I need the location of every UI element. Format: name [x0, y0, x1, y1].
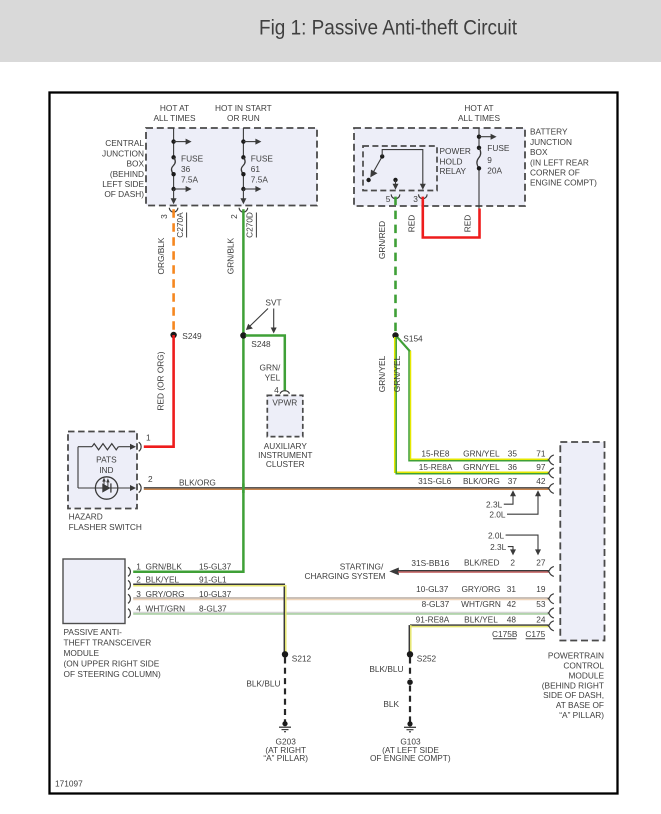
fuse 9 feed wire	[478, 128, 480, 148]
svg-text:JUNCTION: JUNCTION	[530, 137, 572, 147]
svg-text:POWER: POWER	[440, 146, 471, 156]
relay pin 3 connector	[419, 194, 428, 198]
svg-text:8-GL37: 8-GL37	[422, 599, 450, 609]
title bar	[0, 0, 661, 62]
svg-text:171097: 171097	[55, 779, 83, 789]
svg-text:GRN/YEL: GRN/YEL	[377, 355, 387, 392]
svg-text:OF DASH): OF DASH)	[104, 189, 144, 199]
svg-text:MODULE: MODULE	[569, 670, 605, 680]
svg-text:CORNER OF: CORNER OF	[530, 168, 580, 178]
svg-text:GRN/YEL: GRN/YEL	[392, 355, 402, 392]
svg-text:1: 1	[136, 561, 141, 571]
svg-text:OR RUN: OR RUN	[227, 113, 260, 123]
node on fuse 36 feed with branch arrow	[171, 139, 175, 143]
fuse 36 exit wire arrow and connector	[173, 189, 175, 201]
SVT arrow to splice	[250, 309, 269, 327]
fuse 9 element	[477, 146, 481, 150]
fuse 61 lower branch arrow	[241, 187, 245, 191]
svg-text:BATTERY: BATTERY	[530, 127, 568, 137]
splice S248	[240, 332, 246, 338]
svg-text:71: 71	[536, 449, 546, 459]
svg-text:“A” PILLAR): “A” PILLAR)	[559, 710, 604, 720]
svg-text:RELAY: RELAY	[440, 166, 467, 176]
svg-text:36: 36	[181, 164, 191, 174]
junction node on ground wire	[407, 679, 413, 685]
wire BLK/RED to PCM pin 2	[398, 570, 549, 572]
svg-text:CONTROL: CONTROL	[563, 660, 604, 670]
svg-text:S248: S248	[251, 339, 271, 349]
wire GRN/YEL 15-RE8A from S154 to PCM pin 35	[395, 337, 549, 472]
svg-text:JUNCTION: JUNCTION	[102, 148, 144, 158]
PCM pin 37 connector	[548, 483, 553, 493]
svg-text:OF STEERING COLUMN): OF STEERING COLUMN)	[64, 669, 161, 679]
resistor element	[92, 444, 118, 450]
wire BLK/YEL from S252 to PCM	[410, 624, 549, 626]
splice S252	[407, 651, 413, 657]
svg-text:C175: C175	[525, 629, 545, 639]
wire BLK/YEL from transceiver pin 2 to S212	[133, 584, 284, 651]
svg-text:GRY/ORG: GRY/ORG	[146, 589, 185, 599]
svg-text:BLK/RED: BLK/RED	[464, 557, 500, 567]
wire BLK to G103	[409, 686, 411, 722]
relay pin 5 connector	[391, 194, 400, 198]
svg-text:61: 61	[251, 164, 261, 174]
svg-text:C270D: C270D	[245, 212, 255, 238]
svg-text:10-GL37: 10-GL37	[416, 584, 449, 594]
svg-text:POWERTRAIN: POWERTRAIN	[548, 650, 604, 660]
svg-text:GRY/ORG: GRY/ORG	[461, 584, 500, 594]
node on fuse 9 feed with branch arrow	[477, 135, 481, 139]
battery junction box	[354, 128, 525, 206]
svg-text:HOT AT: HOT AT	[160, 103, 189, 113]
svg-text:3: 3	[413, 194, 418, 204]
svg-text:AT BASE OF: AT BASE OF	[556, 700, 604, 710]
svg-text:FLASHER SWITCH: FLASHER SWITCH	[69, 522, 142, 532]
svg-text:ENGINE COMPT): ENGINE COMPT)	[530, 178, 597, 188]
transceiver pin 4 connector	[128, 609, 130, 618]
svg-text:24: 24	[536, 614, 546, 624]
svg-text:15-RE8A: 15-RE8A	[419, 462, 453, 472]
svg-text:31S-BB16: 31S-BB16	[411, 558, 449, 568]
powertrain control module box	[560, 442, 604, 641]
auxiliary instrument cluster VPWR box	[267, 395, 303, 436]
relay common wire to pin 3	[382, 150, 423, 185]
svg-text:3: 3	[136, 589, 141, 599]
svg-text:(BEHIND: (BEHIND	[110, 169, 144, 179]
ground G103	[407, 721, 412, 726]
svg-text:PASSIVE ANTI-: PASSIVE ANTI-	[64, 627, 123, 637]
instrument cluster pin 4 connector	[280, 391, 289, 394]
svg-text:37: 37	[508, 476, 518, 486]
svg-text:HOT AT: HOT AT	[464, 103, 493, 113]
svg-text:SIDE OF DASH,: SIDE OF DASH,	[543, 690, 604, 700]
fuse 36 feed wire	[173, 128, 175, 157]
svg-text:IND: IND	[99, 465, 113, 475]
PCM pin 35 connector	[548, 455, 553, 465]
wire BLK/BLU to G203	[284, 658, 286, 722]
hazard pin 1 arrow and connector	[130, 444, 136, 450]
svg-text:91-GL1: 91-GL1	[199, 575, 227, 585]
svg-text:RED: RED	[462, 215, 472, 233]
svg-text:ORG/BLK: ORG/BLK	[156, 237, 166, 274]
wire GRN/YEL 15-RE8 from S154 to PCM pin 36	[397, 337, 410, 351]
svg-text:20A: 20A	[487, 166, 502, 176]
svg-text:7.5A: 7.5A	[251, 174, 269, 184]
svg-text:GRN/: GRN/	[260, 362, 281, 372]
fuse 61 element	[241, 155, 245, 159]
wire RED from relay pin 3 to fuse 9	[423, 197, 480, 238]
svg-text:97: 97	[536, 462, 546, 472]
svg-text:2: 2	[510, 557, 515, 567]
svg-text:(BEHIND RIGHT: (BEHIND RIGHT	[542, 680, 604, 690]
power hold relay K1 box	[363, 146, 437, 191]
hazard flasher switch box	[68, 432, 137, 509]
ground G203	[282, 721, 287, 726]
svg-text:GRN/YEL: GRN/YEL	[463, 449, 500, 459]
svg-text:RED (OR ORG): RED (OR ORG)	[156, 351, 166, 410]
fuse 61 exit wire arrow and connector	[242, 189, 244, 201]
svg-text:48: 48	[507, 614, 517, 624]
splice S249	[170, 332, 176, 338]
svg-text:53: 53	[536, 599, 546, 609]
relay switch blade	[373, 156, 382, 172]
fuse 61 feed wire	[242, 128, 244, 157]
svg-text:GRN/BLK: GRN/BLK	[146, 561, 183, 571]
svg-text:3: 3	[159, 214, 169, 219]
svg-text:CHARGING SYSTEM: CHARGING SYSTEM	[304, 571, 385, 581]
svg-text:31: 31	[507, 584, 517, 594]
svg-text:42: 42	[536, 476, 546, 486]
PCM pin 31 connector	[548, 594, 553, 604]
PCM pin 48 connector	[548, 621, 553, 631]
svg-text:YEL: YEL	[265, 372, 281, 382]
svg-text:2: 2	[136, 575, 141, 585]
svg-text:15-RE8: 15-RE8	[421, 449, 450, 459]
fuse 36 lower branch arrow	[171, 187, 175, 191]
wire WHT/GRN from transceiver pin 4 to PCM	[133, 611, 549, 613]
svg-text:4: 4	[274, 385, 279, 395]
PATS IND indicator LED	[95, 477, 117, 499]
wire GRN/YEL from S248 to instrument cluster	[246, 336, 285, 392]
svg-text:S252: S252	[417, 653, 437, 663]
svg-text:2.3L: 2.3L	[486, 499, 503, 509]
powertrain control module label	[542, 650, 605, 720]
svg-text:WHT/GRN: WHT/GRN	[461, 599, 501, 609]
svg-text:2.0L: 2.0L	[488, 531, 505, 541]
svg-text:10-GL37: 10-GL37	[199, 589, 232, 599]
svg-text:Fig 1: Passive Anti-theft Circ: Fig 1: Passive Anti-theft Circuit	[259, 17, 517, 40]
svg-text:CLUSTER: CLUSTER	[266, 459, 305, 469]
SVT arrow to wire	[273, 309, 275, 329]
arrow to starting/charging system	[389, 568, 399, 576]
svg-text:S212: S212	[292, 653, 312, 663]
hazard pin 2 arrow and connector	[130, 485, 136, 491]
svg-text:THEFT TRANSCEIVER: THEFT TRANSCEIVER	[64, 638, 152, 648]
svg-text:FUSE: FUSE	[251, 154, 274, 164]
svg-text:RED: RED	[407, 215, 417, 233]
diagram border frame	[50, 93, 618, 794]
svg-text:27: 27	[536, 557, 546, 567]
svg-text:BLK/ORG: BLK/ORG	[463, 476, 500, 486]
svg-text:C270A: C270A	[175, 212, 185, 238]
svg-text:GRN/YEL: GRN/YEL	[463, 462, 500, 472]
svg-text:LEFT SIDE: LEFT SIDE	[102, 179, 144, 189]
svg-text:9: 9	[487, 155, 492, 165]
hazard lower internal wire	[78, 487, 131, 489]
svg-text:2.3L: 2.3L	[490, 542, 507, 552]
PCM pin 2 connector	[548, 566, 553, 576]
svg-text:1: 1	[146, 432, 151, 442]
svg-text:BLK: BLK	[383, 699, 399, 709]
svg-text:HOT IN START: HOT IN START	[215, 103, 272, 113]
wire GRN/RED from relay pin 5	[394, 197, 397, 332]
svg-text:“A” PILLAR): “A” PILLAR)	[263, 753, 308, 763]
svg-text:2.0L: 2.0L	[489, 510, 506, 520]
svg-text:2: 2	[148, 474, 153, 484]
wire GRY/ORG from transceiver pin 3 to PCM	[133, 597, 549, 599]
wire BLK/ORG from hazard flasher pin 2 to PCM	[144, 487, 549, 489]
node on fuse 61 feed with branch arrow	[241, 139, 245, 143]
svg-text:HOLD: HOLD	[440, 156, 463, 166]
svg-text:BLK/YEL: BLK/YEL	[464, 614, 498, 624]
svg-text:ALL TIMES: ALL TIMES	[154, 113, 196, 123]
central junction box label	[102, 138, 144, 199]
splice S154	[392, 332, 398, 338]
svg-text:S154: S154	[403, 333, 423, 343]
svg-text:FUSE: FUSE	[181, 154, 204, 164]
svg-text:(IN LEFT REAR: (IN LEFT REAR	[530, 157, 589, 167]
svg-text:WHT/GRN: WHT/GRN	[146, 603, 186, 613]
svg-text:HAZARD: HAZARD	[69, 511, 103, 521]
svg-text:BLK/YEL: BLK/YEL	[146, 575, 180, 585]
svg-text:36: 36	[508, 462, 518, 472]
svg-text:FUSE: FUSE	[487, 143, 510, 153]
wire GRN/BLK from fuse 61 to transceiver pin 1	[133, 209, 243, 572]
svg-text:15-GL37: 15-GL37	[199, 561, 232, 571]
transceiver pin 1 connector	[128, 567, 130, 576]
svg-text:BOX: BOX	[126, 159, 144, 169]
svg-text:BOX: BOX	[530, 147, 548, 157]
svg-text:PATS: PATS	[96, 455, 117, 465]
PCM pin 42 connector	[548, 608, 553, 618]
svg-text:(ON UPPER RIGHT SIDE: (ON UPPER RIGHT SIDE	[64, 658, 160, 668]
PCM pin 36 connector	[548, 468, 553, 478]
svg-text:35: 35	[508, 449, 518, 459]
svg-text:31S-GL6: 31S-GL6	[418, 476, 452, 486]
svg-text:SVT: SVT	[265, 297, 281, 307]
svg-text:S249: S249	[182, 331, 202, 341]
wire ORG/BLK from fuse 36	[172, 209, 175, 331]
svg-text:BLK/BLU: BLK/BLU	[369, 664, 403, 674]
svg-text:MODULE: MODULE	[64, 648, 100, 658]
svg-text:8-GL37: 8-GL37	[199, 603, 227, 613]
svg-text:5: 5	[386, 194, 391, 204]
svg-text:ALL TIMES: ALL TIMES	[458, 113, 500, 123]
hazard flasher internal wire	[77, 447, 79, 488]
svg-text:42: 42	[507, 599, 517, 609]
svg-text:BLK/ORG: BLK/ORG	[179, 477, 216, 487]
splice S212	[282, 651, 288, 657]
relay contact NC	[366, 178, 370, 182]
wire BLK/BLU segment to junction	[409, 658, 411, 679]
svg-text:VPWR: VPWR	[272, 398, 297, 408]
passive anti-theft transceiver module box	[63, 559, 125, 624]
svg-text:C175B: C175B	[492, 629, 518, 639]
fuse 36 element	[171, 155, 175, 159]
svg-text:4: 4	[136, 603, 141, 613]
svg-text:91-RE8A: 91-RE8A	[416, 614, 450, 624]
transceiver pin 3 connector	[128, 594, 130, 603]
svg-text:19: 19	[536, 584, 546, 594]
svg-text:OF ENGINE COMPT): OF ENGINE COMPT)	[370, 753, 451, 763]
wire RED (OR ORG) to hazard flasher pin 1	[144, 335, 174, 447]
svg-text:BLK/BLU: BLK/BLU	[246, 679, 280, 689]
wire GRN/BLK crossing over BLK/ORG	[242, 484, 245, 494]
relay pin 5 contact	[393, 178, 397, 182]
svg-text:GRN/BLK: GRN/BLK	[226, 237, 236, 274]
svg-text:7.5A: 7.5A	[181, 174, 199, 184]
transceiver pin 2 connector	[128, 580, 130, 589]
svg-text:2: 2	[229, 214, 239, 219]
central junction box	[146, 128, 317, 206]
svg-text:GRN/RED: GRN/RED	[377, 221, 387, 259]
svg-text:CENTRAL: CENTRAL	[105, 138, 144, 148]
